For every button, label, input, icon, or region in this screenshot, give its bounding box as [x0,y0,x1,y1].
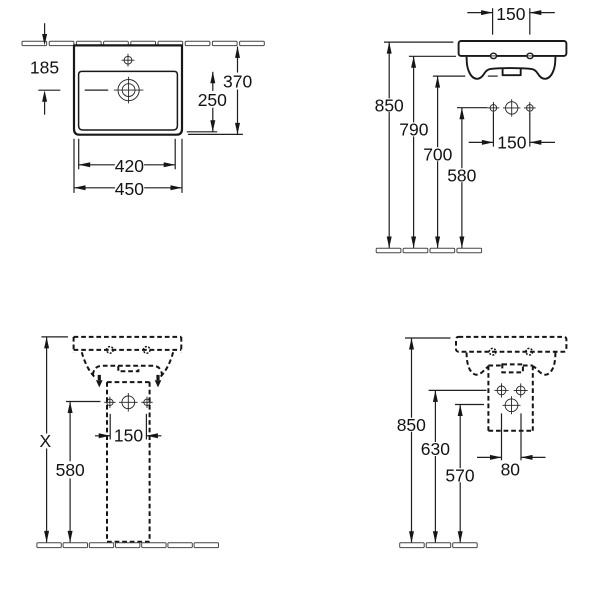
dim 185 [30,23,60,115]
svg-text:850: 850 [375,96,404,116]
floor (top-right) [376,248,481,253]
tap holes (front) [104,393,153,412]
svg-text:700: 700 [423,145,452,165]
dim 250 [198,72,227,132]
svg-text:150: 150 [497,133,526,153]
dim 580 [447,108,487,248]
dim 450 [74,179,182,199]
svg-text:790: 790 [399,120,428,140]
tap hole [85,77,144,104]
svg-text:570: 570 [445,465,474,485]
dim 580 (front) [55,402,100,543]
svg-text:150: 150 [114,426,143,446]
dim 80 [477,413,546,479]
svg-text:185: 185 [30,57,59,77]
fixing holes on rim [489,53,534,58]
dim 150 (front) [95,414,161,446]
dim 570 [445,405,484,543]
svg-text:580: 580 [447,165,476,185]
drain spigot (side) [503,68,521,75]
upper dim 150 [467,4,555,35]
svg-text:X: X [39,431,51,451]
svg-text:80: 80 [501,459,521,479]
dim 850 [375,42,454,248]
dim 790 [399,56,456,248]
svg-text:580: 580 [56,460,85,480]
drain box dashed (side) [502,364,523,372]
svg-text:370: 370 [223,72,252,92]
fixing holes dashed [489,348,532,355]
dim 850 (bottom) [397,338,451,543]
svg-text:150: 150 [496,4,525,24]
body profile (side) [467,57,556,79]
svg-text:420: 420 [115,156,144,176]
dim 700 [423,76,498,248]
dim 420 [79,156,176,176]
dim 370 [223,46,252,134]
svg-text:850: 850 [397,415,426,435]
floor (bottom-right) [400,543,478,548]
floor (bottom-left) [37,543,219,548]
tap holes row [488,99,536,116]
dim X [38,337,68,543]
svg-text:630: 630 [421,439,450,459]
fixing holes (front, dashed) [107,347,150,354]
rim dashed (side) [456,337,566,352]
washbasin inner bowl (plan) [79,71,178,130]
washbasin outer rim (plan) [74,45,182,134]
svg-text:450: 450 [115,179,144,199]
pedestal (front, dashed) [107,382,150,542]
rim (side) [459,41,567,56]
basin dashed outline (front) [74,337,182,378]
svg-text:250: 250 [198,90,227,110]
lower dim 150 [469,113,555,153]
mounting arrows [96,375,161,388]
dim 630 [421,390,487,542]
extension lines below basin [78,139,80,170]
wall [22,41,264,45]
overflow hole [122,54,135,67]
pedestal dashed (side) [488,366,532,431]
holes (side, solid) [494,383,527,414]
extension lines right of basin [187,131,218,133]
drain box (front, dashed) [118,366,138,371]
bowl bottom contour (dashed) [93,366,162,375]
body dashed curves (side) [467,353,489,375]
